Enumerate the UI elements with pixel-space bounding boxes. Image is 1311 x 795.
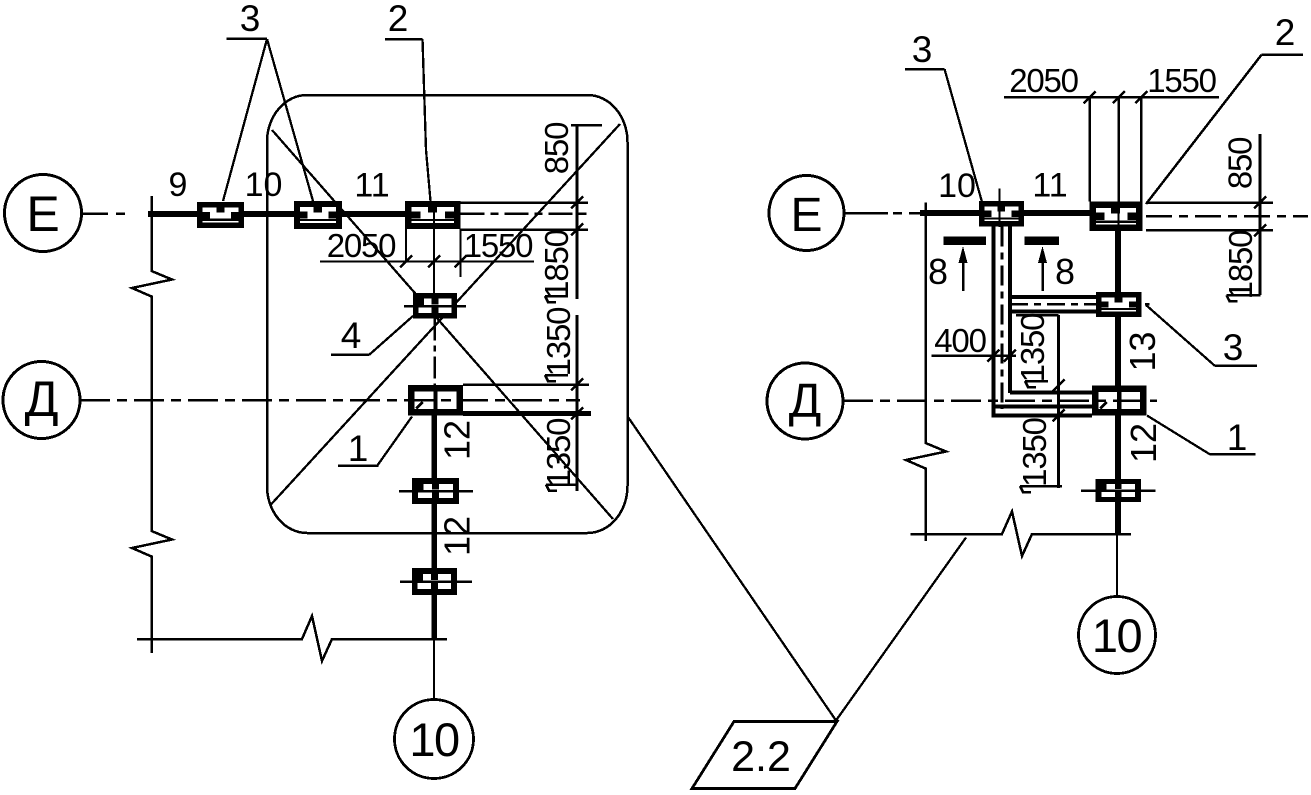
svg-text:1350: 1350 xyxy=(1014,313,1051,382)
svg-text:10: 10 xyxy=(938,167,976,205)
cloud diagonal B xyxy=(271,124,621,505)
section mark 8 left xyxy=(928,241,986,293)
svg-text:400: 400 xyxy=(934,322,986,359)
svg-text:3: 3 xyxy=(1223,327,1244,368)
dimension chain right of cloud: lower (1350/1350) xyxy=(463,307,591,491)
svg-text:2050: 2050 xyxy=(1009,62,1078,99)
box 11 right xyxy=(1093,205,1140,228)
box 4 (on vertical wall) xyxy=(416,296,454,316)
leader from cloud to flag xyxy=(628,417,836,721)
svg-text:2: 2 xyxy=(388,0,409,39)
svg-text:Д: Д xyxy=(789,375,822,428)
box 3 right xyxy=(1099,295,1139,315)
leader label 3 mid right xyxy=(1146,305,1257,368)
partition axis stub above box 10 right xyxy=(998,189,1000,203)
svg-text:1: 1 xyxy=(348,428,369,469)
label 10 right xyxy=(938,167,976,205)
leader from right figure to flag xyxy=(836,538,966,721)
dimension chain right of cloud: upper (850/1850) xyxy=(461,122,603,302)
axis E right dash-dot from circle xyxy=(844,212,926,215)
grid circle D left xyxy=(3,362,80,439)
dimension line 2050/1550 left xyxy=(320,227,534,277)
partition L-corner lines to box 1 xyxy=(992,393,1093,416)
axis D dash-dot xyxy=(80,399,580,402)
svg-text:1: 1 xyxy=(1227,417,1248,458)
box 1 left (on wall D) xyxy=(411,388,459,412)
wire: right boundary vertical line with break xyxy=(906,203,946,542)
svg-text:12: 12 xyxy=(1123,423,1164,463)
svg-text:8: 8 xyxy=(928,251,948,292)
wall: thick vertical wall below box 1 xyxy=(431,415,437,640)
wire: right figure bottom break line xyxy=(911,512,1132,557)
partition wall double horizontals xyxy=(1010,297,1096,312)
wall axis 11 left: dash-dot below box 4 xyxy=(433,319,436,386)
detail cloud (rounded rectangle) xyxy=(267,95,628,533)
grid circle E right xyxy=(769,176,844,251)
svg-text:Е: Е xyxy=(790,189,822,242)
svg-text:8: 8 xyxy=(1055,251,1075,292)
partition axis dash-dot vertical xyxy=(1001,227,1004,410)
svg-text:2050: 2050 xyxy=(327,227,396,264)
leader label 3 top right xyxy=(905,29,982,202)
label 11 right xyxy=(1032,167,1067,205)
crossline through box 12a xyxy=(399,490,473,493)
dimension chain 1350/1350 right xyxy=(1014,313,1065,492)
axis D right dash-dot xyxy=(843,400,1157,403)
rotated label 12 right xyxy=(1123,423,1164,463)
svg-text:850: 850 xyxy=(538,122,575,174)
leader label 1 right xyxy=(1147,416,1256,459)
detail flag parallelogram 2.2 xyxy=(692,722,837,789)
grid circle E left xyxy=(5,175,82,252)
svg-text:1350: 1350 xyxy=(540,307,577,376)
grid circle D right xyxy=(767,363,843,439)
svg-text:2: 2 xyxy=(1275,12,1296,53)
svg-text:11: 11 xyxy=(1032,167,1067,205)
section mark 8 right xyxy=(1025,241,1075,293)
dimension chain 850/1850 right xyxy=(1146,134,1273,301)
svg-text:10: 10 xyxy=(245,166,283,204)
leader label 2 top right xyxy=(1146,12,1303,204)
leader label 1 left xyxy=(338,417,412,470)
svg-text:11: 11 xyxy=(354,167,389,205)
partition wall double verticals xyxy=(994,227,1011,417)
svg-text:2.2: 2.2 xyxy=(731,733,791,781)
wall axis E: thick wall segments xyxy=(148,211,408,217)
svg-text:3: 3 xyxy=(240,0,261,39)
svg-text:1350: 1350 xyxy=(1016,417,1053,486)
svg-text:Е: Е xyxy=(26,186,59,242)
box 1 right xyxy=(1095,389,1143,413)
cloud diagonal A xyxy=(272,130,613,519)
box 10 right xyxy=(982,204,1022,224)
leader label 4 xyxy=(331,315,413,356)
leader label 2 top left xyxy=(385,0,431,201)
box 12a left xyxy=(415,481,456,501)
svg-text:10: 10 xyxy=(409,713,459,766)
box 9 on wall E xyxy=(200,205,241,225)
label 10 (wall E) xyxy=(245,166,283,204)
svg-text:13: 13 xyxy=(1122,331,1163,371)
rotated label 13 xyxy=(1122,331,1163,371)
label 11 (wall E) xyxy=(354,167,389,205)
svg-text:1850: 1850 xyxy=(538,229,575,298)
grid circle 10 right xyxy=(1079,597,1156,674)
axis stub through box 11 right xyxy=(1117,203,1119,232)
dimension line 2050/1550 right xyxy=(1004,62,1219,202)
axis E dash-dot from circle xyxy=(82,212,151,215)
svg-text:850: 850 xyxy=(1222,137,1259,189)
svg-text:12: 12 xyxy=(437,516,478,556)
wire: connector to grid circle 10 right xyxy=(1116,534,1118,597)
svg-text:Д: Д xyxy=(25,371,59,427)
svg-text:1550: 1550 xyxy=(1147,62,1216,99)
wall axis E right: thick wall segments xyxy=(920,210,1092,216)
svg-text:10: 10 xyxy=(1092,609,1142,662)
label 9 xyxy=(169,166,188,204)
axis stub through box 10 right xyxy=(998,203,1000,227)
rotated label 12 (upper) xyxy=(437,420,478,460)
crossline through box 12b xyxy=(400,580,472,583)
box 10 on wall E xyxy=(297,204,339,226)
box 12 right xyxy=(1098,482,1138,500)
wire: connector to grid circle 10 xyxy=(433,640,435,699)
svg-text:1850: 1850 xyxy=(1222,230,1259,299)
svg-text:3: 3 xyxy=(912,29,933,70)
svg-text:1550: 1550 xyxy=(464,227,533,264)
axis E right dash-dot right of box 11 xyxy=(1146,215,1308,218)
axis stub through box 11 left xyxy=(433,203,435,229)
svg-text:12: 12 xyxy=(437,420,478,460)
svg-text:9: 9 xyxy=(169,166,188,204)
box 12b left xyxy=(415,571,454,592)
wall: thick vertical wall x=1118 xyxy=(1115,231,1121,534)
rotated label 12 (lower) xyxy=(437,516,478,556)
wall axis 11 left: thin vertical above box 4 xyxy=(433,229,435,293)
wire: left figure bottom break line xyxy=(137,616,447,661)
svg-text:4: 4 xyxy=(341,315,362,356)
box 11 on wall E xyxy=(408,204,457,226)
partition axis dash-dot horizontal xyxy=(1010,303,1150,306)
crossline through box 12 right xyxy=(1081,489,1156,492)
axis E dash-dot right of box 11 xyxy=(461,212,589,215)
leader label 3 top left xyxy=(223,0,313,201)
wire: left boundary vertical line with break symbols xyxy=(132,196,172,653)
grid circle 10 bottom left xyxy=(395,700,474,779)
svg-text:1350: 1350 xyxy=(540,418,577,487)
dimension 400 xyxy=(932,322,1017,362)
crossline through box 4 xyxy=(404,305,466,308)
